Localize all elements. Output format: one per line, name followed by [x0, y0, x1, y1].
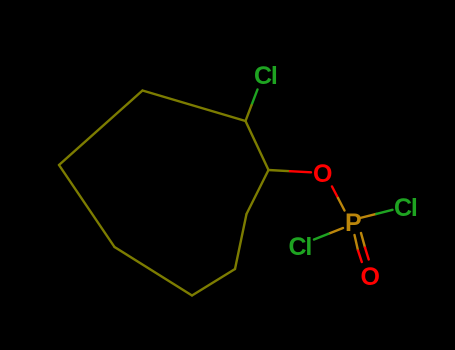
double bond P=O line2 gold half	[361, 233, 365, 248]
svg-text:P: P	[345, 209, 361, 237]
svg-text:Cl: Cl	[254, 62, 277, 90]
ring bond B3-B2	[192, 269, 235, 296]
bond O-P red half	[332, 187, 338, 199]
bond O-P gold half	[338, 198, 345, 211]
ring bond B2-P5	[115, 247, 193, 296]
svg-text:O: O	[361, 263, 380, 291]
bond P-Cl right gold half	[360, 214, 376, 218]
ring bond V3-B3	[235, 214, 247, 269]
bond P-Cl left gold half	[329, 228, 344, 234]
bond V2-O red half	[290, 171, 311, 172]
ring bond V6-V1	[143, 91, 246, 122]
ring bond W-V6	[59, 91, 143, 166]
bond V2-O olive half	[269, 170, 291, 171]
bond V1-Cl olive half	[246, 105, 252, 121]
ring bond V1-V2	[246, 121, 269, 170]
bond P-Cl left green half	[314, 234, 329, 240]
double bond P=O line1 red half	[358, 251, 362, 263]
svg-text:O: O	[313, 160, 332, 188]
ring bond V2-V3	[247, 170, 269, 214]
svg-text:Cl: Cl	[289, 233, 312, 261]
svg-text:Cl: Cl	[394, 194, 417, 222]
bond P-Cl right green half	[376, 210, 392, 214]
bond V1-Cl green half	[252, 90, 258, 106]
double bond P=O line1 gold half	[355, 235, 359, 251]
double bond P=O line2 red half	[365, 248, 369, 260]
ring bond P5-W	[59, 165, 115, 247]
